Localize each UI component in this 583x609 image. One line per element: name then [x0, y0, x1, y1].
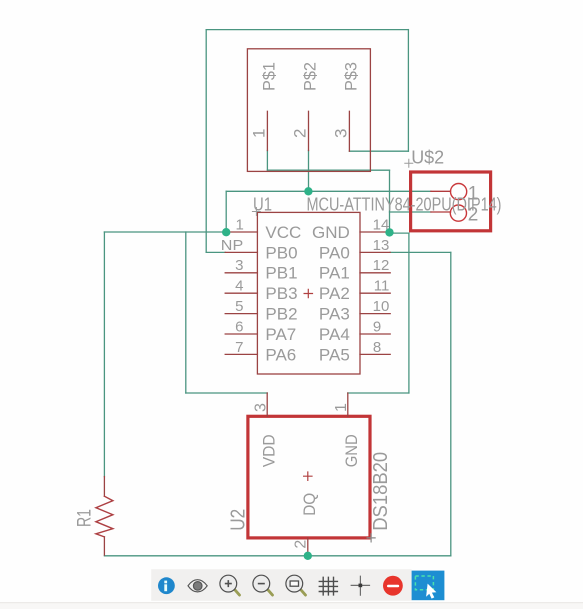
junction dot U2 pin 2 [304, 552, 312, 560]
plus mark U1 center [304, 289, 312, 297]
svg-text:PB0: PB0 [265, 243, 297, 262]
svg-text:3: 3 [235, 257, 243, 274]
svg-text:11: 11 [374, 278, 390, 295]
resistor R1 bottom lead [103, 537, 105, 555]
toolbar info icon [158, 577, 175, 594]
svg-text:12: 12 [373, 257, 390, 274]
U1 pin 4 stub [225, 292, 257, 294]
junction dot U1 pin 14 [385, 228, 393, 236]
junction dot U1 pin 1 [222, 228, 230, 236]
svg-text:VDD: VDD [259, 434, 278, 467]
U1 pin 9 stub [360, 333, 390, 335]
svg-text:13: 13 [373, 237, 390, 254]
svg-text:PA7: PA7 [265, 325, 296, 344]
svg-text:1: 1 [468, 184, 479, 205]
wire to U1 pin NP [206, 251, 225, 253]
svg-text:6: 6 [235, 318, 243, 335]
U$2 pad circle 1 [451, 184, 467, 200]
U2 pin 2 stub [307, 538, 309, 554]
svg-text:NP: NP [221, 237, 243, 254]
wire to U2 pin 3 [186, 392, 267, 394]
wire VCC vertical to U2 VDD [185, 232, 187, 393]
wire VCC row to U$2 pin 1 [226, 190, 431, 192]
wire to P$3 [349, 150, 408, 152]
svg-text:VCC: VCC [265, 223, 301, 242]
U1 pin 11 stub [360, 292, 390, 294]
svg-text:PA1: PA1 [319, 264, 350, 283]
wire branch to U$2 pin 2 [390, 211, 431, 213]
svg-text:P$2: P$2 [301, 62, 320, 91]
svg-text:1: 1 [235, 216, 243, 233]
svg-text:U$2: U$2 [411, 148, 444, 168]
svg-text:7: 7 [235, 339, 243, 356]
U1 pin 2 (NP) stub [225, 251, 257, 253]
toolbar crosshair icon [351, 576, 371, 596]
svg-text:1: 1 [249, 129, 268, 138]
toolbar zoom-in icon [220, 575, 240, 595]
svg-text:3: 3 [331, 129, 350, 138]
svg-text:9: 9 [373, 318, 381, 335]
U1 pin 1 stub [225, 231, 257, 233]
U1 pin 6 stub [225, 333, 257, 335]
svg-text:14: 14 [373, 216, 390, 233]
wire from U1 pin 13 [390, 251, 451, 253]
wire VCC horizontal to R1 column [104, 231, 226, 233]
wire below P$1 [266, 151, 268, 171]
svg-text:PA2: PA2 [319, 284, 350, 303]
U1 pin 12 stub [360, 272, 390, 274]
svg-text:8: 8 [373, 339, 381, 356]
svg-text:3: 3 [252, 403, 269, 412]
U2 pin 3 stub [266, 393, 268, 416]
svg-text:PB1: PB1 [265, 264, 297, 283]
svg-text:DS18B20: DS18B20 [370, 452, 392, 531]
svg-text:5: 5 [235, 298, 243, 315]
sensor U2 box [248, 416, 370, 538]
origin cross U2 [367, 534, 375, 542]
U1 pin 5 stub [225, 313, 257, 315]
toolbar stop icon [383, 576, 403, 596]
wire GND vertical right of U1 [408, 233, 410, 393]
wire DQ bottom horizontal [104, 555, 450, 557]
origin cross U$2 [405, 159, 413, 167]
svg-text:GND: GND [342, 434, 361, 467]
toolbar zoom-box icon [286, 575, 306, 595]
toolbar grid icon [319, 577, 339, 596]
origin cross U1 [252, 208, 260, 216]
U1 pin 10 stub [360, 313, 390, 315]
svg-text:1: 1 [333, 403, 350, 412]
svg-text:2: 2 [293, 540, 310, 549]
wire GND horizontal under header [267, 169, 389, 171]
wire to U2 pin 1 [348, 392, 409, 394]
svg-text:PB2: PB2 [265, 305, 297, 324]
wire GND vertical to U1 pin 14 [389, 170, 391, 232]
svg-text:2: 2 [468, 205, 479, 226]
svg-text:P$1: P$1 [260, 62, 279, 91]
svg-text:PA6: PA6 [265, 345, 296, 364]
bottom status band [0, 602, 583, 609]
wire GND from dot right [390, 232, 409, 234]
pin P$2 stub [308, 111, 310, 150]
U2 pin 1 stub [347, 393, 349, 416]
wire net VCC top horizontal [206, 29, 408, 31]
svg-text:PA3: PA3 [319, 305, 350, 324]
toolbar zoom-out icon [253, 575, 273, 595]
svg-text:U2: U2 [227, 509, 249, 531]
wire below P$2 [308, 151, 310, 192]
wire DQ vertical right [450, 252, 452, 555]
connector header box [247, 49, 370, 172]
svg-text:U1: U1 [253, 195, 272, 215]
U1 pin 13 stub [360, 251, 390, 253]
junction dot net B [304, 187, 312, 195]
svg-text:P$3: P$3 [342, 62, 361, 91]
U$2 pin 1 stub [431, 190, 451, 192]
svg-text:PA0: PA0 [319, 243, 350, 262]
svg-text:10: 10 [373, 298, 390, 315]
U1 pin 14 stub [360, 231, 390, 233]
svg-text:PA4: PA4 [319, 325, 350, 344]
U1 pin 3 stub [225, 272, 257, 274]
U1 pin 7 stub [225, 353, 257, 355]
pin P$1 stub [266, 111, 268, 150]
wire top right vertical [407, 30, 409, 152]
svg-text:PB3: PB3 [265, 284, 297, 303]
connector U$2 box [411, 172, 491, 231]
svg-text:4: 4 [235, 278, 243, 295]
U1 pin 8 stub [360, 353, 390, 355]
toolbar eye icon [188, 580, 207, 592]
plus mark U2 center [304, 472, 312, 480]
wire VCC vertical to U1 pin 1 [225, 191, 227, 232]
resistor R1 zigzag [96, 496, 113, 537]
svg-text:2: 2 [290, 129, 309, 138]
svg-text:PA5: PA5 [319, 345, 350, 364]
IC U1 box [257, 212, 360, 374]
wire net VCC left vertical [205, 30, 207, 253]
svg-text:GND: GND [312, 223, 350, 242]
pin P$3 stub [348, 111, 350, 151]
svg-text:DQ: DQ [300, 493, 319, 516]
U$2 pin 2 stub [431, 211, 451, 213]
U$2 pad circle 2 [450, 205, 466, 221]
svg-text:R1: R1 [74, 509, 95, 527]
toolbar strip [151, 569, 411, 601]
toolbar group-select button [412, 571, 445, 601]
resistor R1 top lead [103, 477, 105, 497]
wire R1 top vertical [103, 232, 105, 477]
